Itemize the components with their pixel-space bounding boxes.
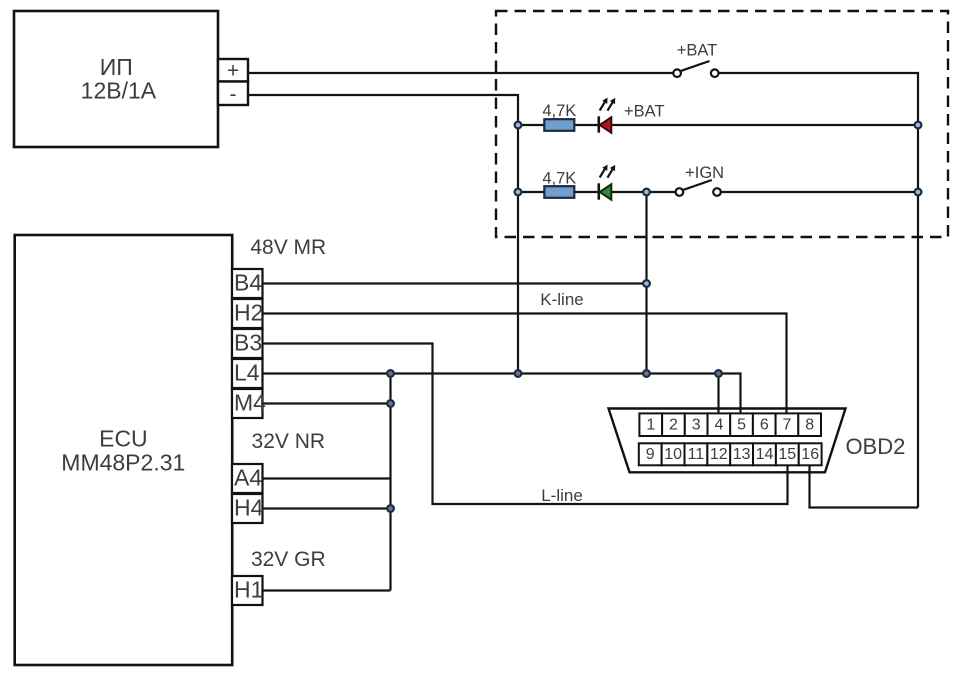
wire - from terminal minus right and down to L4 line [248,95,518,374]
OBD2 pin 5 [730,413,753,436]
OBD2 pin 16 [799,443,822,465]
OBD2 pin 7 [776,413,799,436]
OBD2 connector J1 body [609,409,846,473]
svg-text:L4: L4 [234,360,260,386]
svg-text:H2: H2 [234,300,263,326]
pin A4 [232,464,263,493]
svg-text:ECU: ECU [99,426,148,452]
svg-text:+BAT: +BAT [677,42,718,60]
OBD2 pin 15 [776,443,799,465]
junction node L4-x646 [643,370,650,377]
svg-text:13: 13 [733,446,751,463]
svg-text:ИП: ИП [100,54,133,80]
wire stub from pin 16 inside connector [808,465,810,475]
svg-text:8: 8 [805,416,814,433]
wire +BAT from terminal + to switch S1 [248,72,673,74]
wire OBD2 pin16 down right and up to +BAT bus [810,465,919,507]
pin B3 [232,329,263,358]
resistor R2 4,7K [542,169,576,198]
junction node M4-bus [387,400,394,407]
svg-text:14: 14 [756,446,774,463]
wire M4 to bus [263,402,391,404]
OBD2 pin 9 [639,443,662,465]
ECU MM48P2.31 [15,235,233,665]
wire vertical from green row node down to L4 line [645,192,647,374]
wire red LED row from node to resistor R1 [518,124,544,126]
wire LED D1 to right bus [611,124,918,126]
switch S1 +BAT [673,42,718,77]
pin H4 [232,494,264,523]
svg-text:4,7K: 4,7K [542,169,576,187]
svg-text:H1: H1 [234,577,263,603]
wire H2 to OBD2 pin 7 [263,314,787,414]
OBD2 pin 6 [753,413,776,436]
svg-text:+IGN: +IGN [685,164,724,182]
wire stub to pin 5 inside connector [739,407,741,415]
wire resistor R2 to LED D2 [574,191,597,193]
wire resistor R1 to LED D1 [574,124,597,126]
pin H2 [232,299,263,328]
wire switch S2 to right bus [721,191,919,193]
svg-text:4,7K: 4,7K [542,102,576,120]
svg-text:-: - [230,83,237,106]
power supply ИП 12В/1А [14,11,218,147]
svg-text:3: 3 [692,416,701,433]
svg-text:12В/1А: 12В/1А [81,78,157,104]
junction node red-row right [915,122,922,129]
svg-text:32V NR: 32V NR [252,430,326,453]
svg-text:6: 6 [760,416,769,433]
pin M4 [232,389,266,418]
svg-text:9: 9 [646,446,655,463]
junction node L4-minus [515,370,522,377]
LED D2 green [599,165,615,200]
junction node L4-pin4 [715,370,722,377]
svg-text:12: 12 [710,446,728,463]
svg-text:15: 15 [778,446,796,463]
svg-text:B3: B3 [234,330,262,356]
wire L4 row to OBD2 pin 5 [263,374,741,414]
pin B4 [232,269,263,298]
switch S2 +IGN [676,164,724,196]
svg-text:1: 1 [646,416,655,433]
OBD2 pin 13 [730,443,753,465]
wire H1 to bus [263,589,391,591]
terminal + of power supply [218,59,248,83]
wire from switch S1 to right bus corner and down to pin16 line [719,73,919,508]
wire stub from pin 15 inside connector [786,465,788,475]
wire green row node to resistor R2 [518,191,544,193]
wire LED D2 to switch S2 [611,191,676,193]
svg-text:4: 4 [714,416,723,433]
svg-text:5: 5 [737,416,746,433]
svg-text:16: 16 [801,446,819,463]
svg-text:L-line: L-line [541,486,583,505]
wire from L4 junction down to OBD2 pin 4 [717,374,719,414]
wire ground bus vertical [389,374,391,591]
svg-text:32V GR: 32V GR [251,548,326,571]
svg-text:7: 7 [783,416,792,433]
junction node L4-bus [387,370,394,377]
junction node green-row left [515,189,522,196]
OBD2 pin 8 [798,413,821,436]
OBD2 pin 11 [685,443,708,465]
svg-text:A4: A4 [234,465,262,491]
svg-text:2: 2 [669,416,678,433]
junction node H4-bus [387,505,394,512]
wire stub to pin 7 inside connector [785,407,787,415]
OBD2 pin 10 [662,443,685,465]
svg-text:11: 11 [688,446,705,463]
OBD2 pin 3 [685,413,708,436]
svg-text:M4: M4 [234,390,266,416]
terminal - of power supply [218,82,248,107]
OBD2 pin 1 [639,413,662,436]
junction node B4/K-line [643,280,650,287]
svg-text:+: + [227,60,239,83]
svg-text:10: 10 [664,446,682,463]
svg-text:48V MR: 48V MR [250,236,326,259]
wire A4 to bus [263,477,391,479]
svg-text:MM48P2.31: MM48P2.31 [61,450,185,476]
dashed enclosure box [496,11,948,237]
OBD2 pin 12 [707,443,730,465]
junction node green-row mid [643,189,650,196]
wire B4 K-line to junction [263,282,647,284]
OBD2 pin 2 [662,413,685,436]
LED D1 red +BAT [599,98,665,133]
junction node green-row right [915,189,922,196]
wire B3 L-line down and right to OBD2 pin 15 [263,344,788,505]
OBD2 pin 14 [753,443,776,465]
junction node red-row left [515,122,522,129]
svg-text:+BAT: +BAT [624,102,665,120]
pin H1 [232,576,263,605]
OBD2 pin 4 [708,413,731,436]
wire stub to pin 4 inside connector [717,407,719,415]
svg-text:B4: B4 [234,270,262,296]
wire H4 to bus [263,507,391,509]
svg-text:H4: H4 [234,495,264,521]
svg-text:OBD2: OBD2 [845,434,905,459]
svg-text:K-line: K-line [540,290,583,309]
resistor R1 4,7K [542,102,576,131]
pin L4 [232,359,263,388]
